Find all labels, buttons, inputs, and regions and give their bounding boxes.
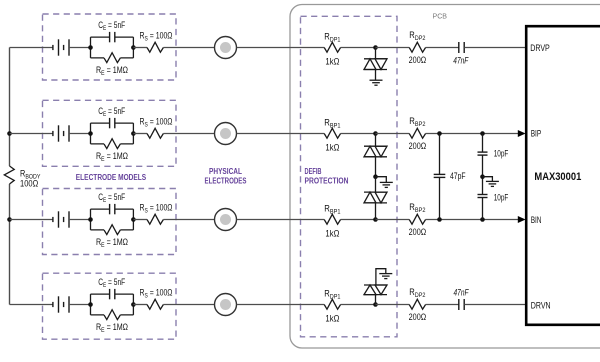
wire mid node to ground xyxy=(376,177,387,183)
wire RC to RS row 4 xyxy=(133,304,147,306)
node RC right row 1 xyxy=(131,45,136,50)
physical electrode E2 xyxy=(215,123,237,145)
wire battery to RC node row 4 xyxy=(69,304,91,306)
wire ground drop row 4 xyxy=(376,269,386,285)
svg-text:200Ω: 200Ω xyxy=(409,55,427,65)
node TVS tap row 4 xyxy=(373,302,378,307)
wire 10pF upper to mid node xyxy=(482,155,484,194)
node RC left row 2 xyxy=(88,131,93,136)
wire RBP2 to MAX30001 row 2 xyxy=(426,133,518,135)
node 10pF tap row 3 xyxy=(480,217,485,222)
resistor RDP1 1kohm row 4 xyxy=(324,299,340,309)
wire TVS to row 4 xyxy=(375,295,377,305)
svg-text:1kΩ: 1kΩ xyxy=(325,56,339,66)
node rail-row2 junction xyxy=(7,131,12,136)
wire rail to battery row 3 xyxy=(10,219,53,221)
capacitor CE 5nF row 2 xyxy=(109,118,111,128)
capacitor C 47nF row 1 xyxy=(458,42,460,53)
wire RC to RS row 2 xyxy=(133,133,147,135)
wire mid node to ground 10pF xyxy=(483,177,493,182)
wire C to DRVN xyxy=(464,304,525,306)
node RC right row 4 xyxy=(131,302,136,307)
wire TVS node to RBP2 row 2 xyxy=(376,133,410,135)
wire TVS node to RDP2 row 4 xyxy=(376,304,410,306)
node TVS tap row 1 xyxy=(373,45,378,50)
wire RDP1 to TVS node row 1 xyxy=(341,47,376,49)
electrode model dashed box 1 xyxy=(43,14,177,80)
svg-text:MAX30001: MAX30001 xyxy=(534,171,581,183)
battery B4 xyxy=(52,302,54,307)
svg-text:47nF: 47nF xyxy=(454,288,469,298)
svg-text:10pF: 10pF xyxy=(494,148,509,158)
battery B2 xyxy=(52,131,54,136)
node RC right row 2 xyxy=(131,131,136,136)
wire RDP1 to TVS node row 4 xyxy=(341,304,376,306)
resistor RDP2 200ohm row 1 xyxy=(409,42,425,52)
node rail-row3 junction xyxy=(7,217,12,222)
svg-text:100Ω: 100Ω xyxy=(20,178,38,188)
node 47pF tap row 3 xyxy=(437,217,442,222)
wire RS to electrode row 4 xyxy=(163,304,214,306)
wire 10pF branch lower xyxy=(482,198,484,220)
wire TVS stub row 1 xyxy=(375,48,377,59)
wire RS to electrode row 2 xyxy=(163,133,214,135)
capacitor C 47nF row 4 xyxy=(458,299,460,310)
ground mid defib xyxy=(380,181,393,183)
capacitor C 10pF lower xyxy=(478,194,488,196)
svg-text:ELECTRODES: ELECTRODES xyxy=(205,175,247,185)
parallel RC branch frame row 2 xyxy=(91,123,134,144)
node TVS tap row 3 xyxy=(373,217,378,222)
physical electrode E1 xyxy=(215,37,237,59)
wire battery to RC node row 2 xyxy=(69,133,91,135)
svg-text:ELECTRODE MODELS: ELECTRODE MODELS xyxy=(76,172,147,182)
wire electrode to series resistor row 4 xyxy=(237,304,325,306)
svg-text:PCB: PCB xyxy=(433,11,448,20)
wire RDP2 to C 47nF row 4 xyxy=(426,304,459,306)
parallel RC branch frame row 4 xyxy=(91,294,134,315)
wire TVS node to RBP2 row 3 xyxy=(376,219,410,221)
capacitor CE 5nF row 4 xyxy=(109,289,111,299)
node RC left row 4 xyxy=(88,302,93,307)
svg-text:47pF: 47pF xyxy=(450,171,466,181)
resistor RS 100ohm row 4 xyxy=(147,299,163,309)
electrode model dashed box 4 xyxy=(43,273,177,339)
resistor RE 1Mohm row 3 xyxy=(104,225,120,235)
wire electrode to series resistor row 1 xyxy=(237,47,325,49)
wire left body rail upper xyxy=(9,48,11,167)
resistor RE 1Mohm row 2 xyxy=(104,139,120,149)
node TVS midpoint xyxy=(373,174,378,179)
svg-text:47nF: 47nF xyxy=(453,55,468,65)
wire RDP2 to C 47nF row 1 xyxy=(426,47,459,49)
wire 10pF branch upper xyxy=(482,134,484,153)
capacitor CE 5nF row 3 xyxy=(109,204,111,214)
svg-text:1kΩ: 1kΩ xyxy=(325,313,339,323)
wire 47pF branch lower xyxy=(439,177,441,219)
svg-text:200Ω: 200Ω xyxy=(409,141,427,151)
wire rail to battery row 1 xyxy=(10,47,53,49)
node TVS tap row 2 xyxy=(373,131,378,136)
wire electrode to series resistor row 2 xyxy=(237,133,325,135)
wire rail to battery row 2 xyxy=(10,133,53,135)
arrow into MAX30001 row 2 xyxy=(518,130,526,137)
wire TVS D3 to row3 xyxy=(375,203,377,220)
wire RBP1 to TVS node row 2 xyxy=(341,133,376,135)
arrow into MAX30001 row 3 xyxy=(518,216,526,223)
TVS diode D4 xyxy=(364,284,387,286)
node RC left row 1 xyxy=(88,45,93,50)
battery B3 xyxy=(52,217,54,222)
svg-text:200Ω: 200Ω xyxy=(409,227,427,237)
physical electrode E3 xyxy=(215,209,237,231)
resistor RBP1 1kohm row 2 xyxy=(324,128,340,138)
ground row 4 xyxy=(379,273,392,275)
wire RC to RS row 1 xyxy=(133,47,147,49)
electrode model dashed box 3 xyxy=(43,189,177,255)
capacitor C 47pF xyxy=(434,173,446,175)
svg-text:DRVN: DRVN xyxy=(531,300,551,310)
node 10pF midpoint xyxy=(480,174,485,179)
wire battery to RC node row 3 xyxy=(69,219,91,221)
node 10pF tap row 2 xyxy=(480,131,485,136)
resistor RS 100ohm row 1 xyxy=(147,42,163,52)
wire RBP1 to TVS node row 3 xyxy=(341,219,376,221)
resistor RS 100ohm row 2 xyxy=(147,128,163,138)
resistor RS 100ohm row 3 xyxy=(147,214,163,224)
capacitor C 10pF upper xyxy=(478,151,488,153)
node RC left row 3 xyxy=(88,217,93,222)
ground 10pF midpoint xyxy=(486,180,499,182)
ground row 1 xyxy=(370,79,383,81)
resistor RBP1 1kohm row 3 xyxy=(324,214,340,224)
wire RS to electrode row 3 xyxy=(163,219,214,221)
svg-text:BIP: BIP xyxy=(531,128,542,138)
battery B1 xyxy=(52,45,54,50)
wire RBP2 to MAX30001 row 3 xyxy=(426,219,518,221)
svg-text:1kΩ: 1kΩ xyxy=(325,228,339,238)
PCB board outline xyxy=(290,5,600,349)
wire TVS node to RDP2 row 1 xyxy=(376,47,410,49)
svg-text:1kΩ: 1kΩ xyxy=(325,142,339,152)
capacitor CE 5nF row 1 xyxy=(109,32,111,42)
TVS diode D2 xyxy=(364,145,387,147)
resistor RBODY 100ohm xyxy=(4,166,14,184)
wire row2 to TVS D2 xyxy=(375,134,377,147)
resistor RDP1 1kohm row 1 xyxy=(324,42,340,52)
svg-text:DRVP: DRVP xyxy=(530,43,550,53)
electrode model dashed box 2 xyxy=(43,100,177,166)
resistor RBP2 200ohm row 2 xyxy=(409,128,425,138)
TVS diode D3 xyxy=(364,191,387,193)
wire TVS to ground row 1 xyxy=(375,70,377,81)
wire mid node to TVS D3 xyxy=(375,177,377,192)
parallel RC branch frame row 1 xyxy=(91,37,134,58)
wire TVS D2 to mid node xyxy=(375,157,377,177)
resistor RBP2 200ohm row 3 xyxy=(409,214,425,224)
wire RS to electrode row 1 xyxy=(163,47,214,49)
defib protection dashed box xyxy=(301,16,398,337)
IC MAX30001 outline xyxy=(526,26,600,325)
physical electrode E4 xyxy=(215,294,237,316)
parallel RC branch frame row 3 xyxy=(91,209,134,230)
resistor RE 1Mohm row 4 xyxy=(104,310,120,320)
resistor RDP2 200ohm row 4 xyxy=(409,299,425,309)
node 47pF tap row 2 xyxy=(437,131,442,136)
wire 47pF branch upper xyxy=(439,134,441,175)
wire left body rail lower xyxy=(9,184,11,305)
node RC right row 3 xyxy=(131,217,136,222)
svg-text:BIN: BIN xyxy=(531,215,542,225)
TVS diode D1 xyxy=(364,58,387,60)
svg-text:10pF: 10pF xyxy=(494,193,509,203)
wire rail to battery row 4 xyxy=(10,304,53,306)
wire battery to RC node row 1 xyxy=(69,47,91,49)
svg-text:200Ω: 200Ω xyxy=(409,312,427,322)
resistor RE 1Mohm row 1 xyxy=(104,53,120,63)
wire C to DRVP xyxy=(464,47,525,49)
wire electrode to series resistor row 3 xyxy=(237,219,325,221)
wire RC to RS row 3 xyxy=(133,219,147,221)
svg-text:PROTECTION: PROTECTION xyxy=(305,175,349,185)
